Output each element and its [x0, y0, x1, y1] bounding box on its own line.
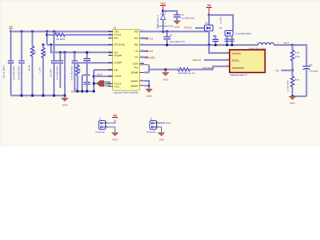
resistor R1 1M (horizontal): [53, 32, 113, 42]
svg-text:RSENSE 5m 1%: RSENSE 5m 1%: [178, 72, 195, 75]
junction HB x=167 (boot cap): [166, 30, 169, 33]
svg-text:CSG: CSG: [133, 62, 138, 65]
svg-text:AGND: AGND: [131, 80, 138, 83]
junction bottom bus x=32.4: [31, 94, 34, 97]
resistor R7 (comp, vertical x=77.5): [76, 63, 82, 92]
svg-text:GND: GND: [112, 139, 118, 142]
ground (under C1): [174, 21, 181, 29]
svg-text:1n 0603 25V: 1n 0603 25V: [181, 17, 194, 20]
svg-text:LO: LO: [135, 50, 138, 53]
capacitor C11 (vertical x=82.2): [82, 75, 90, 91]
svg-text:1u 16V: 1u 16V: [219, 16, 222, 24]
svg-text:GATE: GATE: [232, 58, 240, 62]
svg-text:100n 0603 25V: 100n 0603 25V: [158, 25, 174, 28]
zener diode D1 SMAZ: [156, 11, 167, 32]
power flag VIN (J1): [112, 114, 118, 117]
svg-text:RT/SYNC: RT/SYNC: [114, 44, 125, 47]
ground (IC): [146, 89, 153, 98]
junction SS rail x=60.3: [59, 51, 62, 54]
svg-text:FB: FB: [276, 69, 280, 72]
junction CS x=165.5: [164, 68, 167, 71]
wire: CS sense loop from IC: [144, 65, 178, 73]
IC U1 LM5117: [113, 26, 140, 94]
wire: COMP rail: [78, 62, 113, 64]
svg-text:GND: GND: [163, 78, 169, 81]
svg-text:R43: R43: [295, 52, 300, 55]
junction SW x=215.5: [214, 44, 217, 47]
junction VIN branch: [208, 14, 211, 17]
wire: J1 pin1 to VIN flag: [108, 120, 115, 123]
wire: Q1 source to SW: [208, 31, 210, 45]
svg-text:COMP: COMP: [114, 62, 122, 65]
svg-text:VOUT: VOUT: [114, 75, 121, 78]
svg-text:10u 35V: 10u 35V: [50, 68, 53, 77]
junction FB divider: [291, 69, 294, 72]
junction SS rail x=74.6: [73, 51, 76, 54]
power flag VIN (top left): [9, 25, 13, 31]
svg-text:10.0k 0603: 10.0k 0603: [287, 80, 290, 92]
svg-text:RSENSE: RSENSE: [203, 67, 214, 70]
svg-text:CON-2W: CON-2W: [95, 131, 105, 134]
svg-text:GND: GND: [290, 102, 296, 105]
wire: VCC rail: [82, 74, 90, 76]
svg-text:RAMP: RAMP: [114, 55, 122, 58]
svg-text:DRAIN: DRAIN: [232, 51, 241, 55]
inductor L1: [249, 41, 293, 50]
ground (J2): [158, 133, 165, 142]
ground (J1): [112, 133, 119, 142]
wire: RT rail: [47, 44, 113, 46]
svg-text:GND: GND: [146, 95, 152, 98]
junction RT rail x=51: [50, 44, 53, 47]
resistor R2 (vertical): [28, 46, 37, 96]
net label GATE1 (HO pin): [140, 37, 154, 40]
svg-text:OUT: OUT: [166, 122, 172, 125]
junction on bus x=21.6: [20, 30, 23, 33]
svg-text:47u 16V: 47u 16V: [309, 70, 318, 73]
svg-text:DEMB: DEMB: [131, 71, 139, 74]
wire: HB line: [140, 31, 209, 33]
capacitor C9 (on x=60.3): [56, 52, 63, 88]
wire: AGND/PGND to ground: [144, 81, 149, 89]
svg-text:SOURCE: SOURCE: [232, 66, 244, 70]
wire: bottom comp rail: [74, 90, 95, 92]
wire: UVLO divider drop x=47: [46, 32, 48, 45]
sheet background: [0, 0, 320, 147]
transistor Q2 highlighted (CSD19532KTT): [227, 50, 265, 77]
wire: FB rail: [94, 69, 113, 71]
diode D2 (boxed, bootstrap): [220, 27, 252, 36]
wire: left input branch 1: [10, 32, 12, 61]
bootstrap capacitor C2: [164, 32, 186, 46]
junction OUT node: [291, 44, 294, 47]
svg-text:PG: PG: [134, 67, 138, 70]
junction comp rail x=87: [86, 90, 89, 93]
capacitor C12 (vertical x=87): [84, 51, 91, 91]
ground (output): [289, 96, 296, 105]
wire: top VIN bus: [11, 31, 113, 33]
wire: bottom GND bus: [11, 95, 65, 97]
svg-text:GND: GND: [62, 104, 68, 107]
junction SW x=227: [226, 44, 229, 47]
svg-text:CS: CS: [135, 56, 139, 59]
junction on bus x=47: [46, 30, 49, 33]
svg-text:VCC: VCC: [114, 86, 119, 89]
wire: J2 pin1 OUT: [159, 122, 172, 125]
U1 right pin names: [131, 30, 139, 88]
wire: VOUT rail with OUT label: [93, 70, 113, 91]
svg-text:PGND: PGND: [131, 85, 138, 88]
svg-text:OUT: OUT: [97, 73, 103, 76]
junction RT rail x=43.2: [42, 44, 45, 47]
junction bus corner x=10.8: [10, 30, 12, 32]
wire: input branch 3: [31, 32, 33, 47]
capacitor C7 (input cap 2): [17, 61, 24, 96]
svg-text:47k5: 47k5: [295, 55, 301, 58]
svg-text:1M 0603: 1M 0603: [56, 38, 66, 41]
capacitor C3 (snubber): [213, 16, 223, 45]
wire: SS rail drop: [51, 45, 113, 53]
wire: sense up to Q2 source: [213, 66, 230, 69]
wire: UVLO rail: [47, 34, 53, 36]
capacitor C1: [174, 14, 195, 21]
svg-text:SW: SW: [134, 44, 139, 47]
wire: ground drop x=64.8: [64, 52, 66, 95]
junction comp rail x=77.5: [76, 90, 79, 93]
capacitor C10 (on x=74.6): [70, 52, 77, 91]
junction bottom bus x=54: [53, 94, 56, 97]
svg-text:GATE1: GATE1: [184, 27, 193, 30]
junction x=47 y=34.8: [46, 34, 49, 37]
resistor R6 (sense, horizontal): [177, 67, 214, 75]
wire: OUT to output cap: [292, 45, 306, 66]
net label GATE1 (Q1 gate): [184, 27, 205, 30]
svg-text:10u 0603 35V: 10u 0603 35V: [13, 65, 16, 80]
junction bottom bus x=64.8: [64, 94, 67, 97]
wire: SW node line: [140, 44, 258, 46]
svg-text:CSD19532KTT: CSD19532KTT: [230, 74, 248, 77]
wire: D2 down caps: [227, 36, 232, 45]
net label FB (divider): [276, 69, 293, 72]
svg-text:U1: U1: [113, 26, 117, 29]
junction SW x=209: [208, 44, 211, 47]
junction on bus x=54: [53, 30, 56, 33]
wire: Q2 gate: [193, 59, 230, 62]
svg-text:CON-2W: CON-2W: [146, 131, 156, 134]
wire: branch to C1: [163, 11, 177, 15]
net label RSENSE+ (CS pin): [140, 56, 156, 59]
capacitor C4 plates: [225, 39, 235, 41]
svg-text:HB: HB: [135, 30, 139, 33]
wire: output gnd link: [292, 95, 306, 97]
junction bottom bus x=43.2: [42, 94, 45, 97]
capacitor C8: [50, 61, 57, 96]
capacitor C6 (input cap 1): [3, 61, 16, 96]
wire: to bootstrap diode: [209, 15, 233, 31]
resistor R44 (divider bottom): [287, 70, 300, 96]
junction SW x=167: [166, 44, 169, 47]
svg-text:GND: GND: [159, 139, 165, 142]
U1 right pin stubs and numbers: [140, 29, 149, 86]
power flag VIN (top right): [206, 4, 212, 15]
svg-text:GATE1: GATE1: [145, 37, 154, 40]
junction comp rail x=82.2: [81, 90, 84, 93]
resistor R43 (divider top): [291, 45, 301, 70]
svg-text:GND: GND: [174, 26, 180, 29]
capacitor C5 (output): [303, 63, 319, 96]
svg-text:10n 0603 50V: 10n 0603 50V: [56, 65, 59, 80]
ground (CS): [162, 70, 169, 82]
junction SS rail x=64.8: [64, 51, 67, 54]
svg-text:EN: EN: [114, 37, 118, 40]
junction comp rail x=93.8: [93, 90, 96, 93]
svg-text:LM5117PMHX/NOPB: LM5117PMHX/NOPB: [113, 92, 138, 95]
svg-text:49.9k: 49.9k: [28, 64, 31, 70]
junction zener top branch: [162, 10, 165, 13]
wire: SW down to Q2 drain: [209, 45, 230, 53]
wire: input branch 2: [21, 32, 23, 61]
svg-text:SER1276-103ML: SER1276-103ML: [249, 47, 267, 50]
svg-text:FB: FB: [71, 90, 75, 93]
transistor Q1 (boxed): [205, 22, 214, 31]
connector J1: [95, 118, 108, 135]
U1 left pin stubs and numbers: [108, 29, 113, 87]
net label GATE2 (LO pin): [140, 50, 154, 53]
junction on bus x=32.4: [31, 30, 34, 33]
resistor R5 (vertical on x=43.2): [39, 45, 47, 96]
svg-text:OUT: OUT: [284, 42, 290, 45]
connector J2: [146, 118, 159, 135]
junction SW x=232: [231, 44, 234, 47]
svg-text:FB: FB: [114, 69, 118, 72]
ground (left bus): [61, 96, 68, 108]
svg-text:GATE2: GATE2: [145, 50, 154, 53]
junction bottom bus x=21.6: [20, 94, 23, 97]
junction output gnd: [291, 95, 294, 98]
wire: VCC to zener: [162, 9, 164, 13]
svg-text:4.7n 0603 50V: 4.7n 0603 50V: [70, 65, 73, 80]
wire: branch x=54 from bus: [53, 32, 55, 61]
svg-text:CN-12 (28V): CN-12 (28V): [3, 65, 6, 78]
svg-text:11.5k: 11.5k: [39, 66, 42, 72]
U1 left pin names: [114, 30, 125, 88]
svg-text:CSD19532Q5A: CSD19532Q5A: [236, 33, 252, 36]
svg-text:100n 0603 25V: 100n 0603 25V: [169, 41, 185, 44]
wire: J1 pin2 to gnd: [108, 127, 115, 133]
power flag VCC (top center): [160, 3, 166, 9]
svg-text:R44: R44: [295, 78, 300, 81]
svg-text:GATE2: GATE2: [193, 59, 202, 62]
port arrow (sheet connector): [93, 81, 111, 87]
svg-text:RSENSE: RSENSE: [145, 56, 156, 59]
wire: down to Q1: [208, 15, 210, 25]
junction HB x=163 (zener): [162, 30, 165, 33]
svg-text:HO: HO: [134, 37, 138, 40]
wire: J2 pin2 to gnd: [159, 127, 162, 133]
svg-text:10u 0603 35V: 10u 0603 35V: [17, 65, 20, 80]
